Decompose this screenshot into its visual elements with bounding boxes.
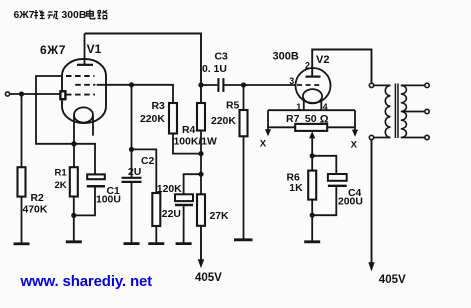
wire B+ to 405V arrow: [371, 140, 373, 263]
node R5: [241, 82, 246, 87]
svg-text:R7: R7: [286, 113, 300, 125]
svg-text:200U: 200U: [338, 197, 363, 208]
svg-text:300B: 300B: [273, 51, 299, 63]
wire secondary middle tap: [403, 111, 425, 113]
node R3/R4/27K: [198, 151, 203, 156]
svg-text:R5: R5: [226, 101, 240, 112]
node input junction: [19, 91, 24, 96]
node g2/C2: [129, 82, 134, 87]
wire rail left drop: [267, 110, 269, 131]
wire R4 to 27K: [200, 131, 202, 195]
V1 second lead (ends open): [92, 115, 94, 136]
transformer secondary winding: [401, 85, 407, 137]
node wiper: [310, 153, 315, 158]
svg-text:6Ж7: 6Ж7: [14, 10, 35, 21]
arrow 405V (output supply): [368, 262, 374, 271]
V1 grid g1 (dashed): [66, 94, 95, 96]
wire g3 to cathode (left loop): [36, 76, 74, 144]
svg-text:X: X: [351, 140, 358, 151]
resistor 27K: [197, 194, 205, 226]
node plate/C3/R4: [198, 82, 203, 87]
arrow X left: [265, 129, 271, 136]
wire 120K to ground: [155, 226, 157, 243]
wire cathode to C1: [74, 144, 95, 175]
ground (C2): [124, 242, 140, 245]
resistor 120K: [152, 193, 160, 226]
svg-text:2K: 2K: [55, 180, 67, 191]
wire filament rail: [268, 109, 355, 111]
svg-text:R2: R2: [31, 193, 45, 204]
wire 22U to ground: [183, 205, 185, 243]
svg-text:6Ж7: 6Ж7: [40, 43, 66, 57]
wire R5 to ground: [243, 136, 245, 239]
wire C1 to R1 bottom: [74, 187, 95, 215]
svg-text:220K: 220K: [140, 114, 165, 125]
ground (R2): [14, 242, 30, 245]
推: [34, 10, 45, 19]
wire R6 to ground: [311, 200, 313, 242]
svg-text:2U: 2U: [128, 167, 141, 178]
ground (120K): [148, 242, 164, 245]
tube V2 envelope: [296, 68, 331, 103]
node C2/120K tap: [129, 147, 134, 152]
wire C3 to V2 grid: [224, 84, 295, 86]
ground (R1): [66, 240, 82, 243]
capacitor C2: [122, 177, 142, 179]
wire pot left: [268, 126, 295, 128]
路: [98, 10, 108, 18]
wire primary bottom to terminal: [374, 137, 391, 139]
wire tap to 120K: [132, 149, 157, 193]
wire C2 to ground: [131, 182, 133, 243]
svg-text:V1: V1: [87, 42, 102, 56]
resistor R3: [169, 103, 177, 134]
resistor R2: [18, 167, 26, 196]
node R1/C1: [71, 213, 76, 218]
resistor R6: [311, 156, 313, 171]
wire V2 plate to transformer: [312, 50, 371, 84]
svg-text:405V: 405V: [195, 272, 222, 284]
svg-text:405V: 405V: [379, 274, 406, 286]
svg-text:R4: R4: [182, 125, 196, 136]
secondary bottom terminal: [425, 135, 429, 139]
capacitor C4: [328, 174, 347, 181]
svg-text:470K: 470K: [23, 205, 48, 216]
wire secondary bottom tap: [401, 137, 425, 139]
arrow 405V (driver supply): [198, 259, 204, 268]
potentiometer R7: [295, 124, 327, 131]
svg-text:3: 3: [289, 76, 294, 86]
resistor R4: [197, 103, 205, 131]
svg-text:2: 2: [305, 61, 310, 71]
tube V1 envelope: [62, 59, 106, 123]
grid cap (V1 g1 side cap): [60, 91, 65, 99]
svg-text:R1: R1: [55, 168, 68, 179]
V1 cathode dome: [74, 107, 93, 122]
svg-text:0. 1U: 0. 1U: [202, 64, 227, 75]
capacitor C3: [201, 84, 217, 86]
wire terminal to primary winding: [374, 84, 391, 86]
svg-text:100U: 100U: [96, 195, 121, 206]
resistor R1: [73, 144, 75, 167]
transformer primary winding: [385, 85, 390, 137]
svg-text:27K: 27K: [210, 211, 230, 222]
resistor R5: [243, 85, 245, 110]
secondary top terminal: [425, 83, 429, 87]
svg-text:Ω: Ω: [320, 114, 329, 126]
secondary middle terminal: [425, 109, 429, 113]
svg-text:X: X: [260, 139, 267, 150]
wire R2 to ground: [21, 197, 23, 243]
svg-text:300B: 300B: [62, 10, 87, 21]
transformer primary top terminal: [369, 83, 373, 87]
svg-text:C3: C3: [215, 52, 229, 63]
V1 cathode lead: [73, 115, 75, 143]
node R6/C4 bottom: [310, 213, 315, 218]
ground (22U): [176, 242, 192, 245]
ground (R6): [304, 240, 320, 243]
node cathode junction: [71, 141, 76, 146]
wire secondary top tap: [401, 84, 425, 86]
V1 plate: [77, 64, 93, 66]
wire 27K to 405V arrow: [200, 226, 202, 260]
svg-text:C2: C2: [141, 156, 155, 167]
svg-text:www. sharediy. net: www. sharediy. net: [20, 273, 153, 290]
ground (R5): [234, 238, 253, 241]
node 22U tap: [198, 172, 203, 177]
wire input to grid cap: [10, 93, 61, 95]
capacitor C1: [87, 174, 105, 179]
svg-text:100K/1W: 100K/1W: [174, 137, 218, 148]
svg-text:V2: V2: [316, 54, 329, 66]
wire pot right: [327, 126, 355, 128]
wire R3 to R4 node: [173, 134, 201, 154]
动: [48, 12, 59, 20]
svg-text:50: 50: [305, 113, 317, 125]
wire input node down to R2: [21, 94, 23, 167]
V1 grid g3 (dashed): [66, 75, 95, 77]
V1 grid g2 (dashed): [75, 84, 95, 86]
transformer core: [395, 84, 398, 139]
V2 filament leads: [304, 99, 322, 111]
wire wiper to C4: [312, 156, 336, 174]
wire tap to 22U: [184, 174, 201, 194]
transformer primary bottom terminal: [369, 135, 373, 139]
title: 6Ж7 推动 300B 电路: [14, 10, 108, 22]
wire C2 branch: [131, 85, 133, 177]
wire rail right drop: [354, 110, 356, 131]
wire top rail (V1 plate to R4/C3): [85, 34, 202, 104]
svg-text:R3: R3: [152, 101, 166, 112]
input terminal: [5, 92, 9, 96]
capacitor 22U: [175, 194, 193, 201]
wire C4 to R6 bottom: [312, 186, 336, 215]
V2 plate: [306, 75, 321, 77]
wire g2 line to R3: [97, 85, 173, 103]
V2 filament dome: [303, 89, 322, 103]
svg-text:1K: 1K: [289, 183, 303, 194]
arrow X right: [352, 130, 358, 137]
电: [87, 10, 95, 19]
V2 grid (dashed): [297, 84, 320, 86]
svg-text:220K: 220K: [211, 116, 236, 127]
wire R1 to ground: [73, 197, 75, 242]
R7 wiper arrow: [311, 137, 313, 156]
V1 plate lead to top rail: [84, 34, 86, 65]
svg-text:22U: 22U: [162, 209, 181, 220]
